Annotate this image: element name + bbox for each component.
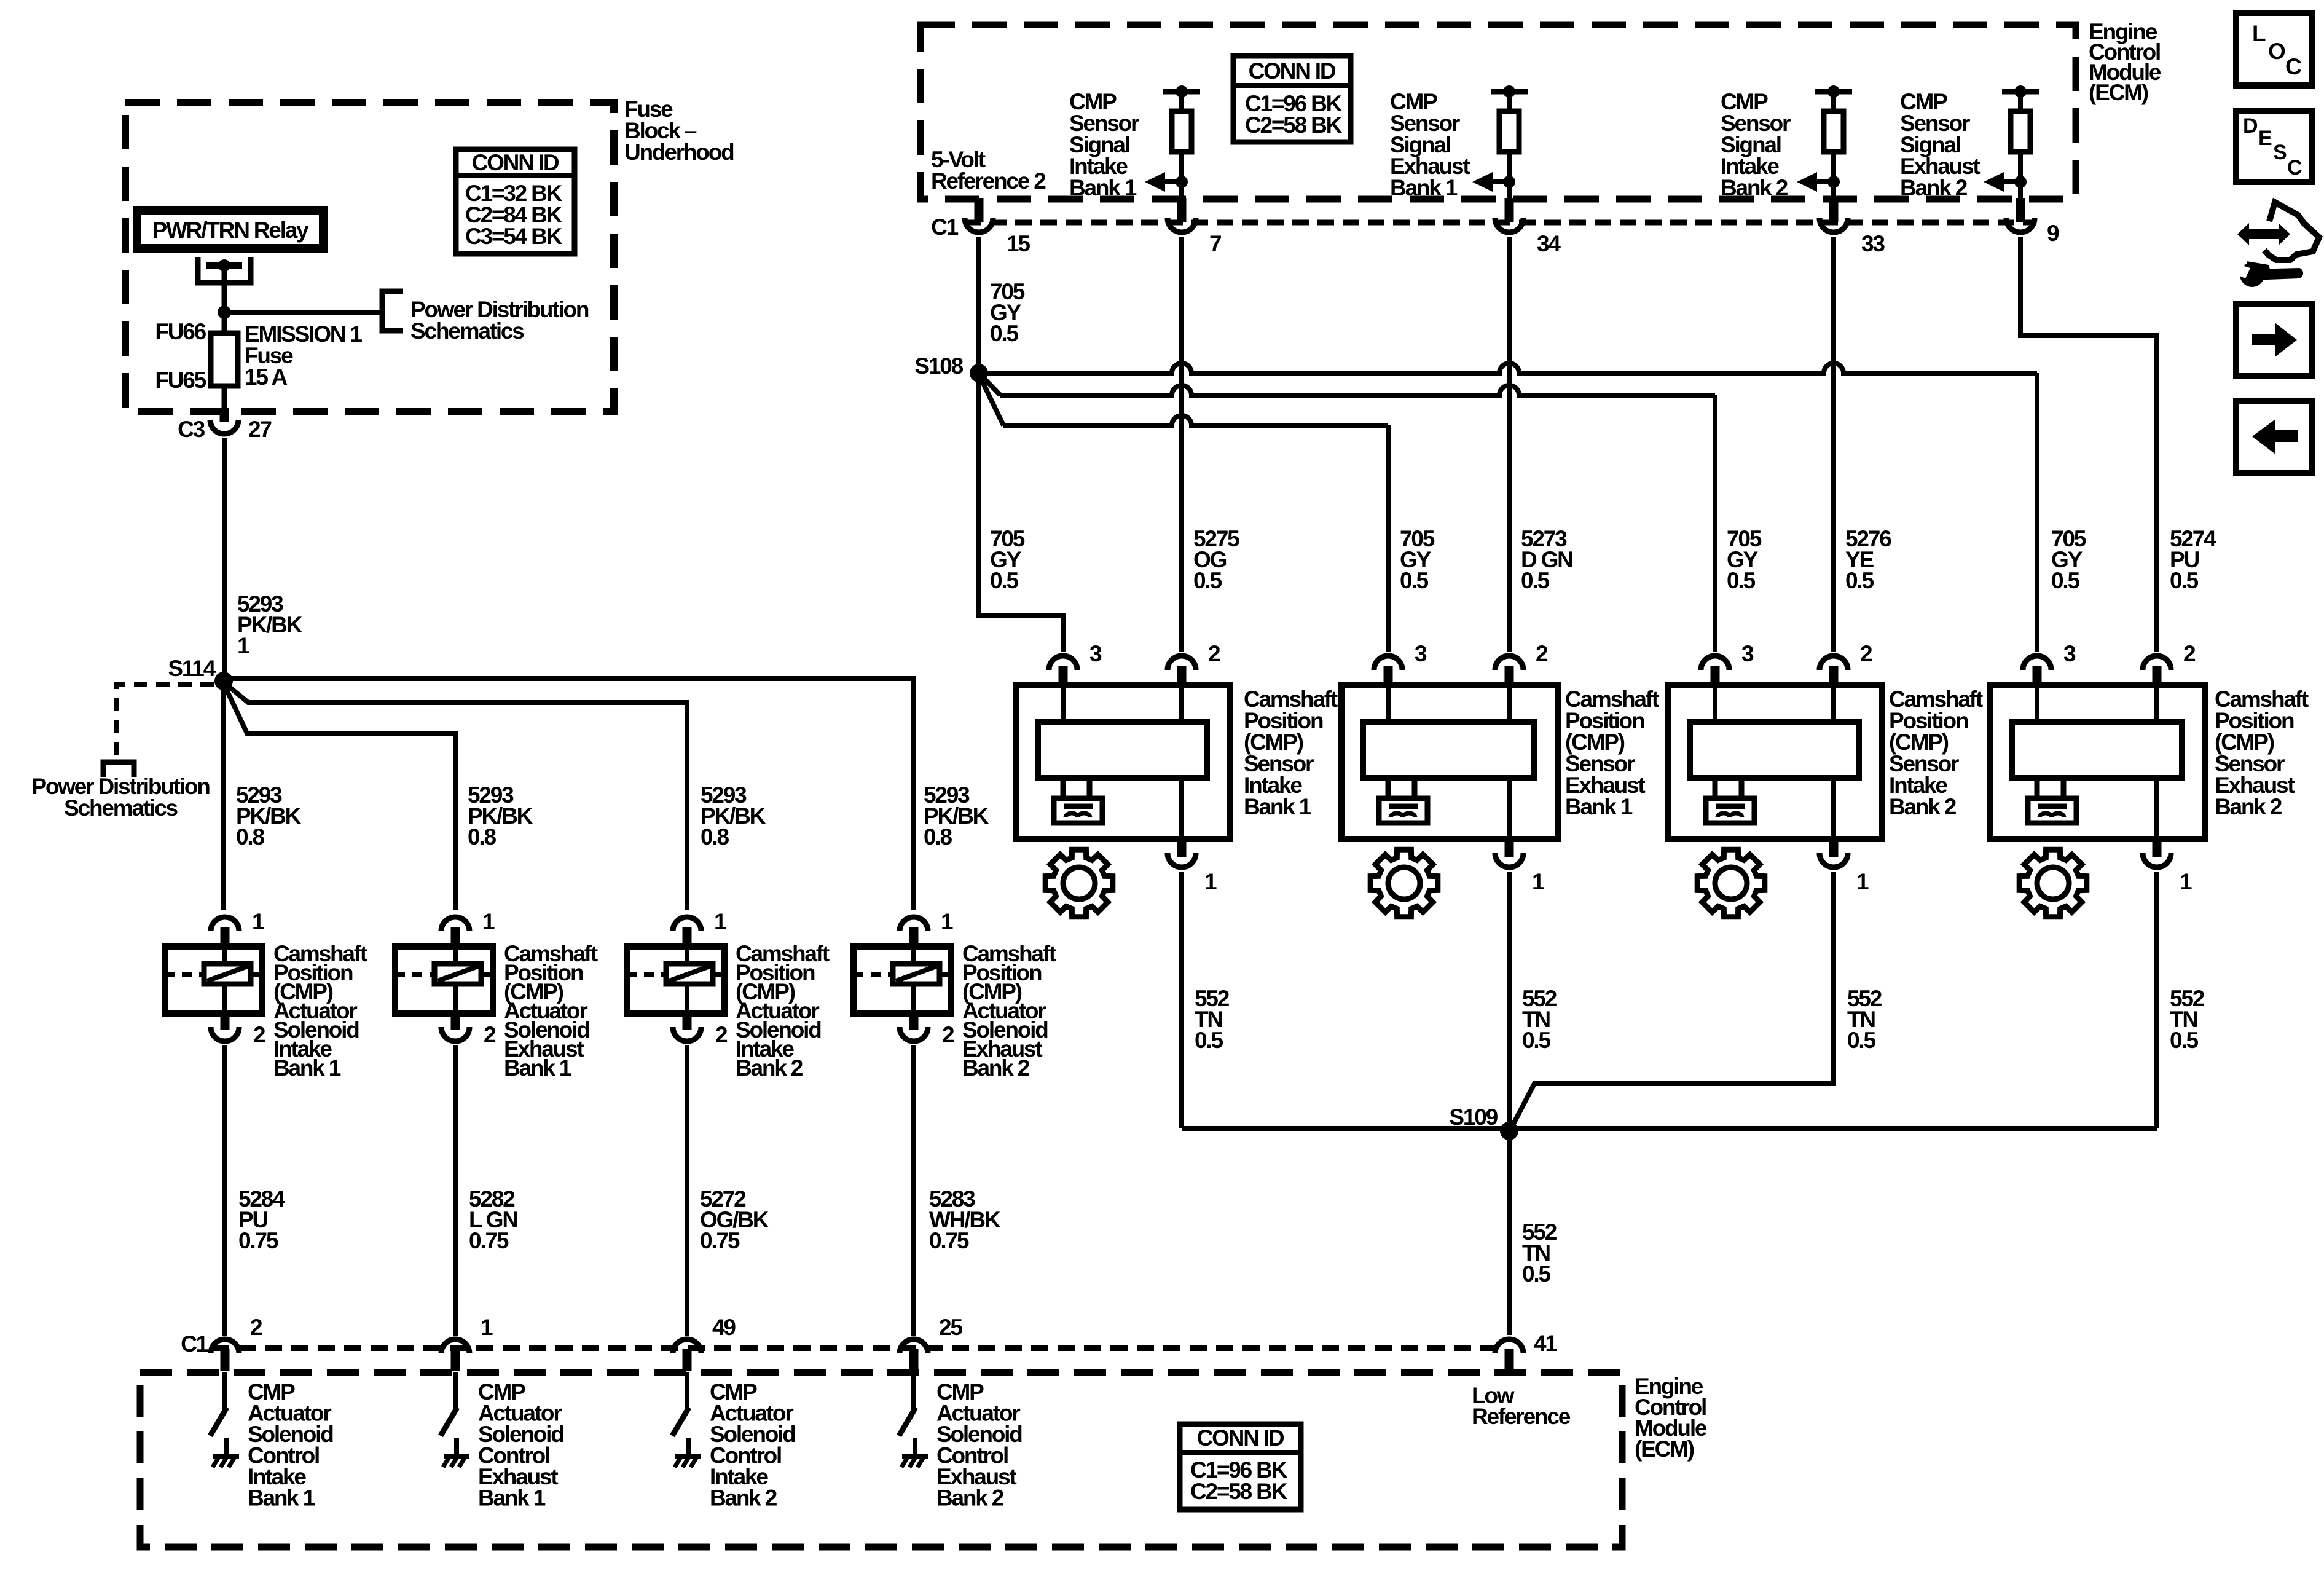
actuator 2 label [504,941,598,1081]
wire label 5273 D GN 0.5 [1521,526,1572,593]
svg-text:49: 49 [712,1315,736,1340]
svg-text:0.5: 0.5 [2170,1028,2198,1053]
svg-text:Bank 1: Bank 1 [478,1486,546,1511]
wire label 552 TN 0.5 (x=2477) [1522,986,1557,1053]
svg-text:CONN ID: CONN ID [1249,58,1336,84]
ground symbol 3 [675,1438,701,1467]
svg-text:Bank 2: Bank 2 [962,1055,1030,1081]
connector pin 2 sensor 1 [1168,641,1220,686]
fuse value label [245,321,362,390]
svg-text:O: O [2268,39,2285,64]
wire label 5283 WH/BK 0.75 [929,1186,1001,1253]
wire relay to fuse [222,262,227,335]
connector C1 pin 34 (top) [1495,198,1561,256]
relay pin bracket [198,257,251,283]
sensor 4 label [2215,687,2309,819]
svg-text:Schematics: Schematics [64,795,178,821]
fuse F EMISSION 1 symbol [211,333,238,386]
connector pin 2 actuator 1 [211,1014,265,1047]
svg-text:25: 25 [939,1315,962,1340]
reluctor gear icon sensor 3 [1697,849,1765,917]
svg-text:Bank 2: Bank 2 [1889,794,1957,819]
low reference label [1472,1383,1571,1429]
svg-text:1: 1 [2180,869,2192,894]
wire fuse to C3 [222,386,227,422]
sensor 2 label [1565,687,1659,819]
connector pin 1 actuator 1 [211,909,264,947]
actuator solenoid L2 box [395,947,493,1014]
svg-text:S114: S114 [168,656,216,681]
svg-text:41: 41 [1534,1331,1557,1356]
actuator solenoid L4 box [854,947,951,1014]
fuse FU66 label [155,319,206,344]
sensing element (hatched) sensor 2 [1379,798,1427,823]
camshaft position sensor B1 box [1016,685,1230,839]
svg-text:0.5: 0.5 [2051,568,2079,593]
svg-text:2: 2 [250,1315,262,1340]
svg-text:0.5: 0.5 [1521,568,1549,593]
wire 552 TN sensor 3 to S109 [1510,872,1834,1130]
pointer bracket (power distribution 2) [103,762,134,777]
svg-text:C3: C3 [178,417,205,442]
svg-text:Bank 2: Bank 2 [1900,175,1968,200]
driver switch 1 (ECM) [210,1372,227,1436]
svg-text:0.8: 0.8 [701,824,729,849]
engine control module label (top) [2089,19,2161,105]
wire label 5293 PK/BK 1 [237,591,303,658]
engine control module dashed box (bottom) [140,1372,1622,1547]
icon box DESC [2236,111,2312,182]
svg-text:2: 2 [1208,641,1220,666]
wire label 5272 OG/BK 0.75 [700,1186,769,1253]
svg-text:3: 3 [1089,641,1102,666]
connector C1 pin 41 [1495,1331,1557,1371]
svg-text:34: 34 [1537,231,1561,256]
svg-text:2: 2 [253,1022,265,1047]
actuator 3 label [736,941,830,1081]
wire 5275 OG pin 7 to sensor 1 pin 2 [1179,237,1184,652]
camshaft position sensor B2 box [1341,685,1558,839]
svg-text:Reference: Reference [1472,1404,1571,1429]
wire S108 to sensor 3 pin 3 [979,373,1715,652]
wire label 5293 PK/BK 0.8 (x=1118) [701,782,766,849]
svg-text:Schematics: Schematics [410,318,524,344]
connector pin 3 sensor 1 [1049,641,1102,686]
connector C1 pin 7 (top) [1168,198,1221,256]
connector pin 3 sensor 3 [1701,641,1754,686]
connector pin 2 actuator 4 [900,1014,954,1047]
svg-text:3: 3 [1741,641,1754,666]
connector C1 pin 25 (bottom) [900,1315,962,1371]
wire label 705 GY 0.5 (pin 15) [990,279,1025,346]
svg-text:Bank 2: Bank 2 [736,1055,803,1081]
wire label 5293 PK/BK 0.8 (x=1487) [924,782,989,849]
svg-text:Bank 2: Bank 2 [710,1486,777,1511]
wire S108 to sensor 2 pin 3 [979,374,1388,652]
svg-text:CONN ID: CONN ID [472,150,559,175]
svg-text:2: 2 [484,1022,496,1047]
signal arrow at pin x=1923 [1145,172,1188,192]
svg-text:Bank 2: Bank 2 [936,1486,1004,1511]
svg-text:0.5: 0.5 [1847,1028,1875,1053]
connector C1 pin 9 (top) [2006,198,2059,246]
svg-text:2: 2 [2183,641,2196,666]
relay K PWR/TRN Relay box [137,210,323,248]
icon box back (left arrow) [2236,401,2312,473]
svg-text:2: 2 [942,1022,954,1047]
connector C1 pin 2 (bottom) [211,1315,262,1371]
connector pin 1 actuator 3 [673,909,726,947]
svg-text:0.5: 0.5 [1400,568,1428,593]
svg-text:Bank 1: Bank 1 [248,1486,315,1511]
svg-text:1: 1 [941,909,953,934]
reluctor gear icon sensor 2 [1370,849,1438,917]
wire label 705 GY 0.5 [2051,526,2086,593]
wire actuator to ECM (5284) [222,1045,227,1336]
svg-text:1: 1 [481,1315,493,1340]
svg-text:0.8: 0.8 [468,824,496,849]
connector C1 dashed line (bottom) [181,1331,1497,1357]
wire 705 GY pin 15 to S108 [976,237,981,373]
connector C1 dashed line (top) [931,215,2034,240]
wire label 5293 PK/BK 0.8 (x=741) [468,782,533,849]
svg-text:(ECM): (ECM) [1635,1436,1694,1462]
wire label 552 TN 0.5 (x=3531) [2170,986,2205,1053]
wire label 5275 OG 0.5 [1193,526,1239,593]
dashed reference line from S114 [117,684,214,761]
svg-text:L: L [2252,21,2266,46]
connector C3 pin 27 [178,417,271,442]
svg-text:9: 9 [2047,221,2059,246]
wire actuator to ECM (5272) [685,1045,689,1336]
splice S108 [914,353,988,382]
wire S108 to sensor 1 pin 3 [979,373,1063,652]
wire 552 TN sensor 1 to S109 [1179,872,1184,1128]
svg-text:C2=58 BK: C2=58 BK [1245,112,1343,138]
service icon outline [2264,202,2319,260]
splice S109 [1449,1105,1518,1140]
resistor (pull-up) at pin x=3288 [2002,85,2039,199]
CMP sensor signal label x=2262 [1390,89,1470,200]
resistor (pull-up) at pin x=2456 [1491,85,1528,199]
fuse FU65 label [155,368,206,393]
wire label 552 TN 0.5 (low reference) [1522,1219,1557,1286]
svg-text:C3=54 BK: C3=54 BK [465,224,563,249]
svg-text:0.75: 0.75 [700,1228,740,1253]
driver switch 3 (ECM) [672,1372,689,1436]
fuse block label [624,96,734,165]
wire label 705 GY 0.5 [1727,526,1762,593]
svg-text:1: 1 [1532,869,1544,894]
svg-text:0.75: 0.75 [238,1228,278,1253]
CMP actuator solenoid control label 1 [248,1379,333,1511]
connector C1 pin 33 (top) [1820,198,1885,256]
driver switch 4 (ECM) [899,1372,916,1436]
power distribution schematics text (fuse block) [410,297,589,344]
connector C1 pin 15 (top) [965,198,1030,256]
pointer bracket (power distribution) [382,291,403,331]
driver switch 2 (ECM) [441,1372,457,1436]
icon box next (right arrow) [2236,304,2312,376]
engine control module label (bottom) [1635,1374,1707,1462]
connector pin 1 actuator 4 [900,909,953,947]
actuator solenoid L1 box [165,947,262,1014]
svg-text:E: E [2258,127,2272,150]
connector pin 1 sensor 1 [1168,839,1217,894]
svg-text:27: 27 [248,417,271,442]
svg-text:Bank 2: Bank 2 [1721,175,1788,200]
CMP sensor signal label x=2800 [1721,89,1791,200]
conn id table (fuse block) [456,149,575,254]
svg-text:0.5: 0.5 [1845,568,1874,593]
svg-text:C: C [2287,156,2302,179]
ground symbol 4 [901,1438,928,1467]
svg-text:0.8: 0.8 [924,824,952,849]
CMP actuator solenoid control label 4 [936,1379,1022,1511]
svg-text:D: D [2243,114,2258,138]
signal arrow at pin x=2984 [1797,172,1840,192]
connector pin 1 sensor 4 [2143,839,2192,894]
wire label 552 TN 0.5 (x=3006) [1847,986,1882,1053]
5-volt reference 2 label [931,147,1046,194]
power distribution schematics text (S114) [31,774,210,821]
svg-text:Bank 1: Bank 1 [1069,175,1137,200]
wire S109 bus [1182,1126,2157,1131]
ground symbol 2 [443,1438,469,1467]
svg-text:3: 3 [1415,641,1427,666]
connector pin 1 actuator 2 [441,909,495,947]
wire label 705 GY 0.5 [990,526,1025,593]
engine control module dashed box (top) [921,25,2076,199]
sensing element (hatched) sensor 1 [1054,798,1102,823]
svg-text:0.5: 0.5 [1522,1261,1550,1286]
CMP sensor signal label x=3092 [1900,89,1980,200]
service icon double arrow [2237,223,2290,245]
svg-text:Bank 1: Bank 1 [1390,175,1458,200]
svg-text:0.5: 0.5 [990,568,1018,593]
wire actuator to ECM (5282) [453,1045,458,1336]
wire 5273 D GN pin 34 to sensor 2 pin 2 [1507,237,1512,652]
wire 5274 PU pin 9 to sensor 4 pin 2 [2020,237,2157,652]
signal arrow at pin x=3288 [1984,172,2027,192]
CMP sensor signal label x=1740 [1069,89,1139,200]
connector pin 2 actuator 2 [441,1014,496,1047]
conn id table (top ECM) [1233,56,1351,142]
actuator 1 label [273,941,367,1081]
wire 552 TN sensor 2 to S109 [1507,872,1512,1131]
fuse block underhood dashed box [125,103,614,412]
connector pin 2 actuator 3 [673,1014,728,1047]
svg-text:CONN ID: CONN ID [1197,1425,1284,1451]
connector pin 3 sensor 4 [2023,641,2076,686]
wire label 5293 PK/BK 0.8 (x=366) [236,782,302,849]
svg-text:0.75: 0.75 [469,1228,509,1253]
svg-text:S109: S109 [1449,1105,1498,1130]
sensor 1 label [1244,687,1338,819]
svg-text:Bank 1: Bank 1 [1244,794,1311,819]
svg-text:15: 15 [1007,231,1030,256]
splice S114 [168,656,233,690]
svg-text:PWR/TRN Relay: PWR/TRN Relay [152,218,309,243]
conn id table (bottom ECM) [1180,1424,1301,1510]
wire actuator to ECM (5283) [911,1045,916,1336]
svg-text:(ECM): (ECM) [2089,80,2148,105]
svg-text:1: 1 [482,909,495,934]
svg-text:FU65: FU65 [155,368,206,393]
ground symbol 1 [213,1438,239,1467]
reluctor gear icon sensor 4 [2019,849,2087,917]
reluctor gear icon sensor 1 [1045,849,1113,917]
wire label 5276 YE 0.5 [1845,526,1891,593]
svg-text:Reference 2: Reference 2 [931,168,1046,194]
connector pin 2 sensor 4 [2143,641,2196,686]
svg-text:C2=58 BK: C2=58 BK [1190,1479,1288,1504]
icon box LOC [2236,13,2312,85]
svg-text:0.5: 0.5 [1193,568,1222,593]
wire S109 to pin 41 [1507,1131,1512,1335]
wire label 5284 PU 0.75 [238,1186,285,1253]
svg-text:Bank 1: Bank 1 [273,1055,341,1081]
svg-text:1: 1 [714,909,726,934]
svg-text:33: 33 [1861,231,1885,256]
connector pin 2 sensor 2 [1495,641,1548,686]
resistor (pull-up) at pin x=1923 [1163,85,1200,199]
resistor (pull-up) at pin x=2984 [1815,85,1852,199]
svg-text:1: 1 [252,909,264,934]
actuator 4 label [962,941,1056,1081]
junction dot [218,305,231,319]
CMP actuator solenoid control label 2 [478,1379,563,1511]
wire S114 to actuator 4 (top branch) [224,679,914,910]
camshaft position sensor B4 box [1990,685,2205,839]
wire 552 TN sensor 4 to S109 [2154,872,2159,1128]
svg-text:0.8: 0.8 [236,824,264,849]
svg-text:C: C [2285,54,2301,79]
wire S114 to actuator 2 (branch) [224,683,455,910]
svg-text:FU66: FU66 [155,319,206,344]
svg-text:1: 1 [237,633,249,658]
camshaft position sensor B3 box [1668,685,1882,839]
wire 5276 YE pin 33 to sensor 3 pin 2 [1831,237,1836,652]
wire S108 to sensor 4 pin 3 [979,363,2037,652]
svg-text:Bank 1: Bank 1 [1565,794,1633,819]
svg-text:S: S [2273,141,2287,164]
sensing element (hatched) sensor 3 [1706,798,1754,823]
svg-text:2: 2 [715,1022,728,1047]
svg-text:Bank 2: Bank 2 [2215,794,2282,819]
svg-text:2: 2 [1536,641,1548,666]
connector pin 3 sensor 2 [1374,641,1427,686]
wire label 705 GY 0.5 [1400,526,1435,593]
svg-text:Underhood: Underhood [624,140,734,165]
connector C1 pin 1 (bottom) [441,1315,493,1371]
wire S114 to actuator 1 [221,684,226,910]
connector pin 1 sensor 2 [1495,839,1544,894]
connector C1 pin 49 (bottom) [673,1315,736,1371]
signal arrow at pin x=2456 [1472,172,1515,192]
connector pin 2 sensor 3 [1820,641,1872,686]
svg-text:S108: S108 [914,353,963,379]
svg-text:2: 2 [1860,641,1872,666]
svg-text:3: 3 [2063,641,2076,666]
svg-text:0.5: 0.5 [1195,1028,1223,1053]
wire C3 to S114 [222,438,227,684]
svg-text:0.5: 0.5 [1727,568,1755,593]
wire label 5282 L GN 0.75 [469,1186,517,1253]
svg-text:C1: C1 [181,1331,208,1357]
wire S114 to actuator 3 (branch) [224,682,687,910]
svg-text:0.5: 0.5 [1522,1028,1550,1053]
svg-text:0.75: 0.75 [929,1228,969,1253]
svg-text:7: 7 [1209,231,1221,256]
wire label 5274 PU 0.5 [2170,526,2216,593]
sensor 3 label [1889,687,1983,819]
wire junction to pointer [224,310,380,315]
connector pin 1 sensor 3 [1820,839,1869,894]
wire label 552 TN 0.5 (x=1944) [1195,986,1230,1053]
svg-text:C1: C1 [931,215,959,240]
CMP actuator solenoid control label 3 [710,1379,795,1511]
svg-text:Bank 1: Bank 1 [504,1055,571,1081]
svg-text:0.5: 0.5 [2170,568,2198,593]
svg-text:15 A: 15 A [245,364,287,390]
sensing element (hatched) sensor 4 [2028,798,2076,823]
service icon wrench [2236,261,2303,287]
svg-text:1: 1 [1204,869,1217,894]
svg-text:1: 1 [1856,869,1869,894]
actuator solenoid L3 box [627,947,724,1014]
svg-text:0.5: 0.5 [990,321,1018,346]
